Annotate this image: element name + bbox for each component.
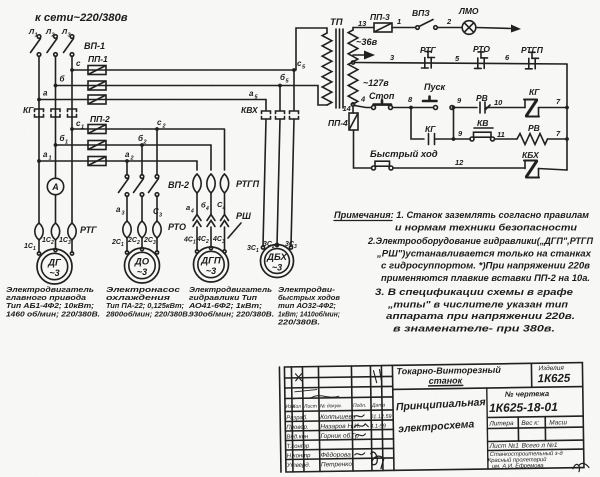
svg-text:12: 12 [455,158,464,167]
wire ВП-2 drop a [126,161,128,175]
wire lamp output wire [476,28,511,29]
wire secondary top lead [353,28,374,31]
svg-text:1460 об/мин; 220/380В.: 1460 об/мин; 220/380В. [6,309,100,318]
wire ДГ lead c [71,240,73,252]
svg-text:ТП: ТП [330,17,343,28]
switch pole ВП-1 pole 3 [64,35,74,57]
node 9 lower [452,137,456,141]
wire а5 corner [265,100,267,111]
wire wire 11 to РВ coil [495,138,518,140]
contact КВХ main c [290,111,299,119]
svg-text:Дата: Дата [371,403,385,409]
svg-text:Масш: Масш [549,419,567,426]
node б5 [278,84,282,88]
fuse ПП-2 а [88,157,106,166]
svg-text:аппарата при напряжении 220в.: аппарата при напряжении 220в. [386,310,575,321]
motor terminals ДБХ [261,243,292,249]
fuse ПП-1 а [88,95,106,104]
svg-text:1К625-18-01: 1К625-18-01 [489,400,558,415]
wire line а2 [39,160,197,162]
svg-text:ЛМО: ЛМО [458,6,479,16]
svg-text:Быстрый ход: Быстрый ход [370,149,438,160]
fuse ПП-1 б [88,81,106,90]
svg-text:10: 10 [494,98,503,107]
stamp drawing number cell [487,387,584,469]
svg-text:2: 2 [205,239,209,245]
svg-text:РТО: РТО [473,44,490,54]
stamp left row lines [285,376,394,459]
svg-text:№ докум.: № докум. [320,403,342,409]
wire ДБХ lead c [291,119,294,246]
motor terminals ДО [125,247,158,254]
wire ВП-2 drop c [156,129,158,175]
node б2 junction [140,143,144,147]
svg-text:а: а [116,205,121,214]
svg-text:А: А [51,182,59,192]
wire РШ pointer [228,223,241,238]
wire wire 14 down to row 12 [354,130,372,168]
thermal heater element РТГ c [68,223,76,240]
svg-text:~3: ~3 [49,268,59,278]
svg-text:3: 3 [68,240,71,246]
wire ДО lead a [126,238,128,251]
svg-text:Колпышева: Колпышева [320,413,356,421]
fuse ПП-4 [349,113,358,130]
stamp signature rows [285,413,392,469]
svg-text:Всего л №1: Всего л №1 [522,442,558,450]
svg-text:ДГ: ДГ [47,258,62,269]
wire wire 9 to РВ contact [454,107,478,109]
svg-text:Горник об.Гр: Горник об.Гр [320,431,359,440]
motor ДГ main drive [37,249,72,284]
fuse ПП-2 c [88,125,106,134]
wire wire 4 to Стоп [355,106,372,108]
wire ДГП drop a corner [196,161,198,170]
svg-text:КГ: КГ [425,124,436,134]
svg-text:ВП-2: ВП-2 [168,180,189,190]
svg-text:РВ: РВ [528,123,540,133]
svg-text:Разраб.: Разраб. [286,415,308,421]
svg-text:а: а [186,203,190,212]
КВ label underline [474,127,493,129]
svg-text:а: а [43,89,48,98]
wire right bus [566,64,568,170]
svg-text:РТГП: РТГП [521,45,544,55]
svg-text:1: 1 [193,240,196,246]
wire wire 1 [392,27,415,29]
wire ДГ phase b drop lower [55,195,57,223]
thermal heater element РТГП a [193,174,201,193]
wire ДО lead c [156,238,158,251]
thermal relay contact РТГ [422,52,435,69]
svg-text:4: 4 [190,209,194,215]
svg-text:КВХ: КВХ [241,105,259,115]
svg-text:ПП-2: ПП-2 [90,114,110,124]
svg-text:РВ: РВ [476,93,488,103]
plug connector pin РШ a [193,215,201,227]
text block ДБХ description [277,285,341,326]
wire КГ aux to node 9 [435,138,454,140]
svg-text:КГ: КГ [23,105,34,115]
svg-text:ПП-1: ПП-1 [88,54,108,64]
wire ДГП mid a [196,193,198,214]
svg-text:~36в: ~36в [356,37,378,47]
contact КГ main b [51,109,60,117]
stamp schema name [395,396,486,435]
wire phase C feeder [71,56,73,129]
wire ДО lead b upper [141,196,143,221]
time relay contact РВ [480,102,490,113]
wire wire to node 8 [393,107,412,109]
svg-text:1: 1 [256,248,259,254]
svg-text:Пуск: Пуск [424,82,445,92]
svg-text:13: 13 [358,19,367,28]
svg-text:ДГП: ДГП [200,256,221,267]
stamp left column lines [291,365,394,471]
corner check mark [573,463,589,471]
thermal heater element РТО b [138,221,146,238]
svg-text:Вед.кон: Вед.кон [286,434,309,440]
svg-text:станок: станок [429,375,463,386]
wire ДБХ lead a [263,119,266,246]
svg-text:3. В спецификации схемы в граф: 3. В спецификации схемы в графе [375,286,573,297]
svg-text:~3: ~3 [272,263,282,273]
svg-text:2.Электрооборудование гидравли: 2.Электрооборудование гидравлики(„ДГП",Р… [367,235,593,246]
svg-text:Петренко: Петренко [321,461,353,468]
wire ДГП drop b corner [210,145,212,170]
svg-text:2: 2 [446,17,452,26]
wire ДГП mid b [210,193,212,214]
svg-text:Изделия: Изделия [538,364,564,372]
plug connector pin РШ c [221,215,229,227]
wire line c [72,69,294,71]
wire line б [56,85,280,87]
wire wire to ПП-4 [352,106,354,113]
svg-text:б: б [60,75,66,84]
stamp line under title [393,387,583,390]
motor ДГП hydraulic [194,247,229,282]
svg-text:КВ: КВ [477,118,488,128]
svg-text:КГ: КГ [529,87,540,97]
svg-text:ВП-1: ВП-1 [84,41,105,51]
thermal heater element РТГ a [35,223,43,240]
wire ДГ phase c drop [71,129,73,223]
svg-text:11: 11 [497,130,505,139]
svg-text:5: 5 [455,54,460,63]
svg-text:с гидросуппортом. *)При напряж: с гидросуппортом. *)При напряжении 220в [381,260,590,271]
contact КГ main a [35,109,44,117]
wire ВП-2 drop b [141,145,143,175]
aux contact КГ [429,134,435,145]
pushbutton Стоп [372,100,393,109]
svg-text:9: 9 [457,96,462,105]
ammeter A [47,178,63,194]
wire coil КГ to bus [539,107,568,109]
switch pole ВП-1 pole 2 [47,35,57,57]
switch pole ВП-2 pole 2 [134,175,144,197]
svg-text:2800об/мин; 220/380В.: 2800об/мин; 220/380В. [105,309,190,318]
svg-text:РТГ: РТГ [420,45,437,55]
svg-text:в знаменателе- при 380в.: в знаменателе- при 380в. [393,323,555,334]
svg-text:а: а [43,150,48,159]
secondary 127V tap [351,61,354,64]
coil РВ (resistor zigzag) [517,134,548,145]
limit switch Быстрый ход [372,161,394,170]
wire wire 10 to КГ coil [486,107,526,109]
wire line б2 [56,144,212,146]
thermal heater element РТО c [153,221,161,238]
wire ДГП lead a [196,227,198,250]
node c branch [70,68,74,72]
motor terminals ДГ [37,248,73,255]
svg-text:3: 3 [390,53,395,62]
thermal relay contact РТГП [526,52,539,69]
stamp litera row [487,416,583,441]
pushbutton Пуск [423,97,454,110]
thermal heater element РТГП c [220,174,228,193]
node c1 [70,127,74,131]
wire line c2 [72,128,224,130]
wire ДГ lead a [38,240,40,252]
thermal heater element РТГП b [207,174,215,193]
svg-text:3: 3 [159,213,162,219]
node b branch [54,84,58,88]
svg-text:Подп.: Подп. [353,403,366,409]
svg-text:Принципиальная: Принципиальная [396,396,486,413]
secondary bottom terminal [351,103,354,106]
motor ДБХ rapid traverse [261,245,294,278]
svg-text:2: 2 [136,240,140,246]
text block ДО description [105,285,190,318]
svg-text:Кол: Кол [292,404,301,410]
svg-text:7: 7 [556,97,561,106]
svg-text:ПП-4: ПП-4 [328,118,348,128]
wire ДГП drop c corner [224,129,226,170]
node 9 upper [452,106,456,110]
wire ДГ phase a drop [38,161,40,223]
svg-text:2: 2 [50,240,54,246]
wire node 9 link [453,108,455,140]
contact КГ main c [68,109,77,117]
wire wire 2 [438,27,463,29]
wire c5 drop [293,70,295,110]
fuse ПП-2 б [88,141,106,150]
wire РВ coil to bus [548,138,568,140]
svg-text:Н.контр: Н.контр [287,453,311,459]
svg-text:КБХ: КБХ [522,150,540,160]
svg-text:а: а [125,150,130,159]
coil КГ [524,100,539,117]
text block ДГ description [6,285,100,318]
svg-text:5: 5 [302,65,306,71]
svg-text:Лист №1: Лист №1 [489,443,520,450]
wire phase B feeder [55,56,57,145]
svg-text:ДО: ДО [134,257,150,268]
svg-text:930об/мин; 220/380В.: 930об/мин; 220/380В. [189,309,274,318]
svg-text:~3: ~3 [137,267,147,277]
stamp factory name [488,450,564,470]
svg-text:4: 4 [360,95,366,104]
svg-text:01.12.59: 01.12.59 [370,414,392,420]
node 7 lower [565,137,569,141]
svg-text:применяются плавкие вставки ПП: применяются плавкие вставки ПП-2 на 10а. [381,272,590,283]
svg-text:Вес к:: Вес к: [521,420,539,427]
svg-text:Провер.: Провер. [286,425,308,431]
wire wire 8 to Пуск [411,107,434,109]
wire rail 3 [355,63,568,65]
svg-text:а: а [249,89,254,98]
wire ДО lead b [141,238,143,248]
scan texture overlay (decorative) [0,0,1,1]
svg-text:3: 3 [222,239,225,245]
svg-text:1: 1 [397,17,401,26]
wire ДО lead c upper [156,196,158,221]
node а2 junction [125,159,129,163]
switch ВПЗ [416,20,438,30]
contact КВХ main a [262,111,271,119]
svg-text:1: 1 [121,242,124,248]
thermal relay contact РТО [475,52,488,69]
svg-text:РТО: РТО [168,222,186,232]
motor ДО coolant pump [125,248,160,283]
wire ДГП lead c [224,227,226,250]
wire wire to КВ [454,138,471,140]
svg-text:6: 6 [505,53,510,62]
switch pole ВП-1 pole 1 [31,35,41,57]
svg-text:к сети~220/380в: к сети~220/380в [35,12,128,24]
svg-text:Примечания: 1. Станок заземлят: Примечания: 1. Станок заземлять согласно… [334,209,589,220]
svg-text:с: с [157,118,162,127]
svg-text:ВПЗ: ВПЗ [412,8,430,18]
svg-text:Лист: Лист [303,404,317,410]
node 8 [409,106,413,110]
limit switch КВ [470,132,495,141]
node c2 junction [155,127,159,131]
node b1 [54,143,58,147]
wire б5 drop [279,86,281,111]
svg-text:Литера: Литера [488,420,514,427]
wire б5 to primary bottom [279,86,327,106]
svg-text:„типы" в числителе указан тип: „типы" в числителе указан тип [387,299,568,310]
svg-text:c: c [76,59,81,68]
svg-text:3: 3 [122,211,125,217]
stamp margin line [279,367,281,472]
contact КВХ main b [276,111,285,119]
svg-text:№ чертежа: № чертежа [505,389,549,399]
node a1 [37,159,41,163]
arrow end of lamp wire [511,25,521,33]
wire coil КБХ to bus [539,169,568,171]
wire primary top to c5 [296,28,327,70]
svg-text:РШ: РШ [236,211,251,221]
wire node 8 drop [411,108,424,140]
svg-text:7: 7 [556,129,561,138]
node 7 upper [565,106,569,110]
36V tap arrow [353,51,375,60]
node c5 [292,68,296,72]
wire phase A feeder [38,56,40,161]
revision row scribble [294,395,339,399]
stamp item cell [531,363,571,388]
svg-text:3: 3 [294,244,297,250]
svg-text:им. А.И. Ефремова: им. А.И. Ефремова [492,463,545,470]
thermal heater element РТО a [123,221,131,238]
svg-text:8: 8 [408,95,413,104]
transformer secondary winding [348,30,358,104]
svg-text:4: 4 [222,206,226,212]
wire ДО lead a upper [126,196,128,221]
motor terminals ДГП [195,246,226,253]
notes underline [334,220,392,222]
svg-text:электросхема: электросхема [398,418,475,435]
svg-text:220/380В.: 220/380В. [277,317,320,326]
svg-text:Фёдорова: Фёдорова [321,451,352,459]
svg-text:1: 1 [33,246,36,252]
svg-text:ДБХ: ДБХ [266,252,287,263]
coil КБХ [524,161,539,178]
svg-text:4.1-59: 4.1-59 [370,424,386,430]
fuse ПП-1 c [88,66,106,75]
thermal heater element РТГ b [51,223,59,240]
svg-text:5: 5 [286,79,290,85]
wire ДБХ lead b [277,119,280,246]
stamp outer frame [284,363,584,472]
svg-text:Утверд.: Утверд. [286,463,311,469]
node a branch [37,98,41,102]
svg-text:ПП-3: ПП-3 [370,12,390,22]
plug connector pin РШ b [207,215,215,227]
svg-text:Т.контр: Т.контр [287,444,310,450]
svg-text:2: 2 [162,124,166,130]
svg-text:3: 3 [153,240,156,246]
switch pole ВП-2 pole 1 [119,175,129,197]
svg-text:14: 14 [343,104,352,113]
svg-text:РТГ: РТГ [80,225,97,235]
svg-text:2: 2 [130,156,134,162]
svg-text:~3: ~3 [206,266,216,276]
svg-text:4: 4 [205,206,209,212]
fuse ПП-3 [374,23,392,32]
text block ДГП description [188,285,274,318]
wire ДГП lead b [210,227,212,247]
svg-text:и нормам техники безопасности: и нормам техники безопасности [395,222,577,233]
svg-text:1К625: 1К625 [538,373,571,385]
stamp title cell [396,365,501,387]
svg-text:9: 9 [458,129,463,138]
lamp ЛМО [462,21,476,35]
switch pole ВП-2 pole 3 [149,175,159,197]
svg-text:РТГП: РТГП [236,179,260,189]
svg-text:„РШ")устанавливается только на: „РШ")устанавливается только на станках [376,248,592,259]
stamp sheets row [488,442,584,451]
stamp signature squiggles [295,370,383,470]
wire line а [39,99,266,101]
transformer core [336,29,343,108]
transformer primary winding [322,33,332,105]
stamp header tiny texts [285,403,385,410]
wire ДГП mid c [224,193,226,214]
wire ДГ lead b [55,240,57,249]
wire ДГ phase b drop upper [55,145,57,178]
wire wire 12 [393,167,525,169]
svg-text:~127в: ~127в [363,78,389,88]
